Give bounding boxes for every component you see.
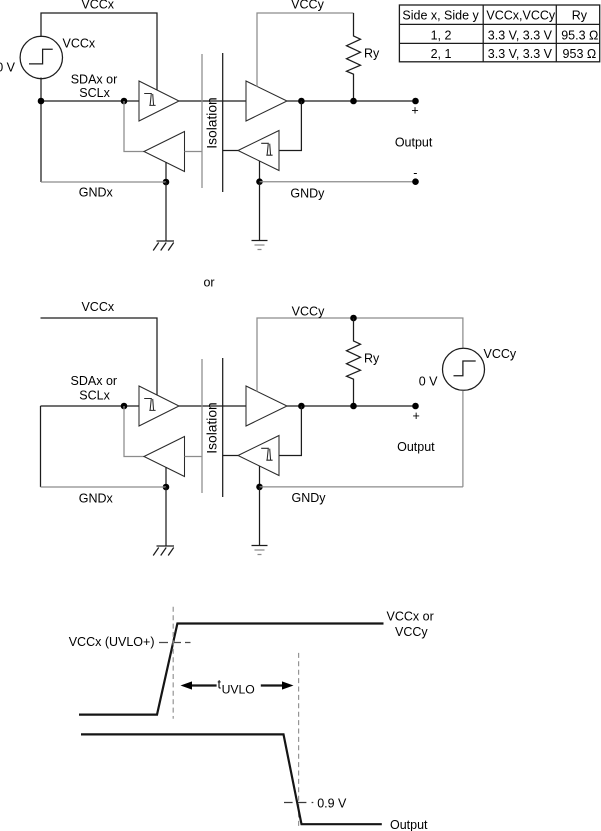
svg-text:VCCy: VCCy	[292, 304, 325, 318]
wire to earth ground (circuit 2)	[259, 487, 261, 546]
resistor Ry (circuit 1)	[347, 13, 361, 101]
chassis ground symbol (circuit 1)	[153, 241, 174, 251]
svg-text:VCCx: VCCx	[81, 0, 114, 12]
svg-text:-: -	[413, 166, 417, 180]
junction node Ry bottom (circuit 2)	[350, 403, 357, 410]
svg-text:Output: Output	[390, 818, 428, 831]
svg-text:2, 1: 2, 1	[431, 47, 452, 61]
buffer U4A (circuit 2 right top)	[246, 386, 287, 426]
svg-text:+: +	[411, 104, 418, 118]
wire U1B output to isolation barrier	[185, 151, 203, 153]
buffer U1A (Schmitt, circuit 1 left top)	[139, 81, 179, 121]
isolation barrier left line (circuit 1)	[201, 54, 203, 188]
svg-text:GNDx: GNDx	[79, 492, 114, 506]
wire U3A output across barrier to U4A (circuit 2)	[179, 405, 246, 407]
wire VCCx top rail (circuit 2)	[41, 318, 158, 395]
svg-text:953 Ω: 953 Ω	[563, 47, 597, 61]
hysteresis symbol U2B	[261, 143, 272, 155]
junction node GNDx tap (circuit 2)	[163, 484, 170, 491]
junction node Ry top (circuit 2)	[350, 315, 357, 322]
svg-text:Ry: Ry	[572, 9, 588, 23]
dashed level marker UVLO+	[159, 642, 191, 644]
svg-text:GNDx: GNDx	[79, 186, 114, 200]
hysteresis symbol U4B	[261, 448, 272, 460]
isolation barrier right line (circuit 2)	[222, 358, 224, 497]
table row 1	[431, 29, 599, 43]
svg-text:95.3 Ω: 95.3 Ω	[561, 29, 598, 43]
svg-text:SDAx or: SDAx or	[71, 374, 118, 388]
hysteresis symbol U3A	[144, 399, 155, 411]
dashed level marker 0.9 V	[284, 802, 313, 804]
svg-text:+: +	[413, 409, 420, 423]
wire source V2 to GNDy rail (circuit 2)	[462, 391, 464, 487]
wire GNDx rail (circuit 2)	[41, 486, 167, 488]
junction node output feedback tap (circuit 2)	[298, 403, 305, 410]
dimension arrow left (tUVLO)	[181, 681, 217, 689]
table Ry selection	[399, 5, 599, 62]
wire GNDx rail (circuit 1)	[41, 181, 166, 183]
buffer U2A (circuit 1 right top)	[246, 81, 287, 121]
svg-text:Side x, Side y: Side x, Side y	[402, 9, 479, 23]
wire source V1 to node SDAx	[40, 78, 42, 102]
dashed timing cursor t1	[298, 653, 300, 827]
svg-text:Isolation: Isolation	[205, 402, 220, 453]
wire V1 return to GNDx rail	[40, 101, 42, 182]
wire U2A output to + terminal (circuit 1)	[287, 100, 416, 102]
svg-text:or: or	[203, 276, 214, 290]
wire U3B output to isolation barrier (circuit 2)	[185, 456, 203, 458]
wire feedback to buffer U3B (circuit 2)	[124, 406, 144, 457]
wire left return to GNDx (circuit 2)	[40, 406, 42, 487]
resistor Ry (circuit 2)	[347, 318, 361, 406]
svg-text:0.9 V: 0.9 V	[317, 796, 347, 810]
svg-text:VCCy: VCCy	[291, 0, 324, 12]
buffer U4B (Schmitt, left-pointing, circuit 2 right bottom)	[238, 436, 279, 476]
svg-text:0 V: 0 V	[419, 375, 438, 389]
wire U1A output across barrier to U2A	[179, 100, 246, 102]
svg-text:VCCx (UVLO+): VCCx (UVLO+)	[69, 635, 155, 649]
dimension arrow right (tUVLO)	[261, 681, 294, 689]
svg-text:0 V: 0 V	[0, 61, 16, 75]
waveform VCCx/VCCy supply	[79, 624, 384, 715]
wire to chassis ground (circuit 1)	[165, 182, 167, 241]
step source V1 (VCCx, circuit 1)	[20, 36, 62, 78]
svg-text:3.3 V, 3.3 V: 3.3 V, 3.3 V	[488, 29, 553, 43]
svg-text:SCLx: SCLx	[79, 388, 110, 402]
svg-text:SDAx or: SDAx or	[71, 72, 118, 86]
junction node Ry bottom (circuit 1)	[350, 98, 357, 105]
svg-text:VCCy: VCCy	[395, 625, 428, 639]
junction node GNDy tap (circuit 2)	[256, 484, 263, 491]
junction node GNDy tap (circuit 1)	[256, 178, 263, 185]
wire U2B ground tap (circuit 1)	[259, 161, 261, 182]
svg-text:VCCx: VCCx	[81, 300, 114, 314]
svg-text:Isolation: Isolation	[205, 97, 220, 148]
svg-text:Output: Output	[397, 440, 435, 454]
svg-text:VCCx,VCCy: VCCx,VCCy	[486, 9, 556, 23]
svg-text:Ry: Ry	[364, 352, 380, 366]
wire VCCy rail (circuit 1)	[257, 13, 354, 87]
junction node GNDx tap (circuit 1)	[163, 179, 170, 186]
wire feedback to buffer U4B (circuit 2)	[279, 406, 301, 456]
junction node feedback tap (circuit 1 left)	[121, 98, 128, 105]
earth ground symbol (circuit 2)	[252, 546, 268, 555]
svg-text:3.3 V, 3.3 V: 3.3 V, 3.3 V	[488, 47, 553, 61]
svg-text:VCCx or: VCCx or	[387, 610, 434, 624]
buffer U3B (left-pointing, circuit 2 left bottom)	[144, 437, 185, 477]
junction node feedback tap (circuit 2 left)	[121, 403, 128, 410]
buffer U1B (left-pointing, circuit 1 left bottom)	[144, 132, 185, 172]
table header row	[402, 9, 587, 23]
svg-text:Output: Output	[395, 135, 433, 149]
wire U4A output to + terminal (circuit 2)	[287, 405, 416, 407]
waveform Output	[81, 734, 382, 824]
step source V2 (VCCy, circuit 2)	[443, 348, 485, 390]
svg-text:1, 2: 1, 2	[431, 29, 452, 43]
wire U4B ground tap (circuit 2)	[259, 466, 261, 487]
wire GNDy rail (circuit 2)	[260, 486, 463, 488]
wire feedback to buffer U2B (circuit 1 right)	[279, 101, 301, 151]
label VCCx or VCCy (waveform)	[387, 610, 434, 639]
chassis ground symbol (circuit 2)	[153, 546, 174, 556]
wire GNDy rail (circuit 1)	[260, 181, 416, 183]
wire U4B output to barrier (circuit 2)	[223, 455, 238, 457]
wire VCCx top rail (circuit 1)	[41, 13, 157, 90]
hysteresis symbol U1A	[144, 94, 155, 106]
wire SDAx/SCLx net (circuit 2)	[41, 405, 140, 407]
table row 2	[431, 47, 597, 61]
terminal + (circuit 2)	[412, 403, 419, 410]
isolation barrier right line (circuit 1)	[222, 53, 224, 192]
terminal - (circuit 1)	[412, 178, 419, 185]
buffer U3A (Schmitt, circuit 2 left top)	[139, 386, 179, 426]
svg-text:GNDy: GNDy	[290, 186, 325, 200]
wire SDAx/SCLx net (circuit 1)	[41, 100, 139, 102]
terminal + (circuit 1)	[412, 98, 419, 105]
wire to chassis ground (circuit 2)	[165, 487, 167, 546]
svg-text:SCLx: SCLx	[79, 86, 110, 100]
label tUVLO	[218, 677, 255, 696]
wire U1B ground tap (circuit 1)	[165, 162, 167, 182]
wire feedback to buffer U1B (circuit 1 left)	[124, 101, 144, 152]
dashed timing cursor t0	[172, 607, 174, 719]
svg-text:VCCy: VCCy	[484, 347, 517, 361]
buffer U2B (Schmitt, left-pointing, circuit 1 right bottom)	[238, 131, 279, 171]
wire U3B ground tap (circuit 2)	[165, 467, 167, 487]
junction node output feedback tap (circuit 1)	[298, 98, 305, 105]
wire U2B output to barrier (circuit 1)	[223, 150, 238, 152]
isolation barrier left line (circuit 2)	[201, 359, 203, 493]
svg-text:UVLO: UVLO	[222, 682, 255, 696]
svg-text:Ry: Ry	[364, 47, 380, 61]
wire to earth ground (circuit 1)	[259, 182, 261, 241]
earth ground symbol (circuit 1)	[252, 241, 268, 250]
junction node SDAx (circuit 1)	[38, 98, 45, 105]
svg-text:GNDy: GNDy	[291, 491, 326, 505]
svg-text:VCCx: VCCx	[63, 37, 96, 51]
wire VCCy rail (circuit 2)	[257, 318, 463, 392]
